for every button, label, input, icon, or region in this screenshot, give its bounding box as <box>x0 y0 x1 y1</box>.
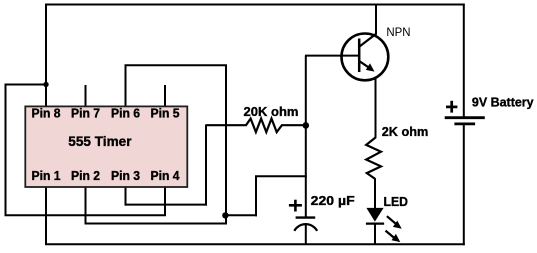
svg-text:Pin 6: Pin 6 <box>111 106 140 121</box>
svg-text:9V Battery: 9V Battery <box>472 95 535 110</box>
wire pin 3 drop <box>125 187 127 206</box>
wire left rail down <box>5 85 7 216</box>
wire capacitor to bottom rail <box>305 225 307 245</box>
wire left rail bottom to pin 4 <box>5 214 167 216</box>
wire pin 2 drop <box>85 187 87 225</box>
wire pin 2 horizontal <box>85 223 228 225</box>
wire pin 3 horizontal <box>125 204 208 206</box>
wire battery negative to bottom rail <box>463 124 465 245</box>
svg-text:Pin 8: Pin 8 <box>32 106 61 121</box>
svg-text:Pin 3: Pin 3 <box>111 168 140 183</box>
wire pin 4 drop <box>164 187 166 216</box>
wire 2K resistor to LED <box>374 179 376 209</box>
svg-text:Pin 1: Pin 1 <box>32 168 61 183</box>
svg-text:NPN: NPN <box>386 25 410 39</box>
svg-text:220 µF: 220 µF <box>311 193 355 208</box>
svg-text:2K ohm: 2K ohm <box>382 124 429 139</box>
wire top supply rail <box>45 4 465 6</box>
resistor R2 2K ohm <box>366 138 381 180</box>
wire battery positive drop <box>463 5 465 118</box>
wire LED to bottom rail <box>374 224 376 245</box>
svg-text:555 Timer: 555 Timer <box>68 134 132 149</box>
wire collector drop <box>375 4 377 35</box>
svg-text:20K ohm: 20K ohm <box>244 104 299 119</box>
wire pin 6 riser <box>125 65 127 107</box>
capacitor C1 220 uF <box>289 200 317 231</box>
wire pin 5 stub <box>164 85 166 107</box>
LED D1 <box>366 208 402 242</box>
wire base cap vertical <box>305 56 307 217</box>
svg-text:Pin 2: Pin 2 <box>71 168 100 183</box>
wire pin 3 riser <box>205 125 207 206</box>
svg-text:LED: LED <box>384 194 409 209</box>
wire pin 6 horizontal <box>125 64 228 66</box>
battery B1 9V <box>445 101 485 124</box>
wire cap branch riser <box>255 176 257 216</box>
wire pin 8 to top rail <box>45 5 47 108</box>
junction pin 8 node <box>43 82 48 87</box>
junction discharge node <box>222 212 228 218</box>
wire junction to cap branch horizontal <box>225 214 257 216</box>
wire cap branch top horizontal <box>255 175 307 177</box>
wire pin 8 branch left <box>5 84 47 86</box>
wire pin 6 drop to trigger node <box>225 65 227 224</box>
wire pin 7 stub <box>85 85 87 107</box>
wire emitter to 2K resistor <box>375 79 377 138</box>
svg-text:Pin 7: Pin 7 <box>71 106 100 121</box>
IC U1 555 Timer <box>25 106 187 187</box>
wire base lead <box>305 55 359 57</box>
transistor Q1 NPN <box>342 34 389 81</box>
svg-text:Pin 4: Pin 4 <box>151 168 181 183</box>
wire bottom ground rail <box>45 243 465 245</box>
resistor R1 20K ohm <box>206 119 304 133</box>
svg-text:Pin 5: Pin 5 <box>151 106 180 121</box>
wire pin 1 drop <box>45 187 47 246</box>
junction base node <box>303 122 310 129</box>
